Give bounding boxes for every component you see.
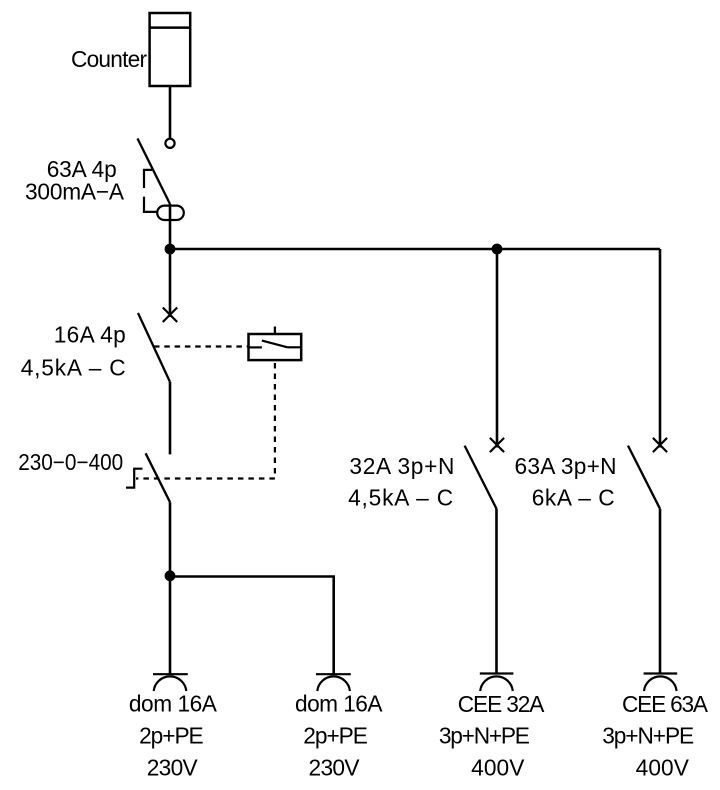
svg-text:CEE 63A: CEE 63A bbox=[622, 691, 709, 717]
svg-text:dom 16A: dom 16A bbox=[129, 691, 218, 717]
socket outlet X4 (CEE 63A) bbox=[644, 674, 678, 692]
svg-text:2p+PE: 2p+PE bbox=[303, 723, 368, 749]
wire RCD to bus node bbox=[169, 204, 172, 250]
svg-text:dom 16A: dom 16A bbox=[295, 691, 383, 717]
contact cross F1 bbox=[163, 308, 177, 323]
svg-text:4,5kA – C: 4,5kA – C bbox=[348, 484, 453, 510]
svg-text:Counter: Counter bbox=[71, 46, 147, 72]
svg-text:6kA – C: 6kA – C bbox=[532, 484, 615, 510]
svg-text:2p+PE: 2p+PE bbox=[139, 723, 204, 749]
wire bus to breaker F1 bbox=[169, 249, 172, 317]
wire bus to breaker F2 bbox=[496, 249, 499, 448]
wire meter to RCD contact bbox=[169, 86, 172, 139]
svg-text:300mA−A: 300mA−A bbox=[25, 179, 125, 205]
breaker blade F2 32A bbox=[465, 446, 497, 509]
svg-text:63A 3p+N: 63A 3p+N bbox=[515, 453, 617, 479]
svg-text:CEE 32A: CEE 32A bbox=[458, 691, 545, 717]
wire S1 to outlet node bbox=[169, 502, 172, 674]
svg-text:230−0−400: 230−0−400 bbox=[18, 449, 123, 475]
contactor control line (dashed) bbox=[136, 363, 275, 479]
mechanical linkage breaker to contactor (dashed) bbox=[154, 345, 249, 347]
open contact circle bbox=[165, 139, 174, 148]
RCD sensing toroid (stadium) bbox=[157, 206, 184, 220]
contact cross F2 bbox=[490, 438, 504, 452]
wire F2 to CEE 32A socket bbox=[495, 509, 498, 674]
socket outlet X3 (CEE 32A) bbox=[480, 674, 514, 692]
contact cross F3 bbox=[653, 438, 667, 452]
RCD test linkage bracket (dashed) bbox=[144, 170, 157, 212]
contactor K1 box bbox=[249, 334, 302, 360]
step symbol bbox=[126, 469, 143, 488]
bus corner wire to breaker F3 bbox=[659, 249, 662, 448]
wire F3 to CEE 63A socket bbox=[659, 509, 662, 674]
svg-text:16A 4p: 16A 4p bbox=[54, 322, 126, 348]
contactor contact blade bbox=[262, 341, 288, 348]
node C (outlet branch) bbox=[165, 570, 176, 581]
breaker blade F3 63A bbox=[628, 446, 660, 509]
kWh meter (Counter) box bbox=[150, 13, 191, 86]
node A (bus junction left) bbox=[165, 244, 176, 255]
socket outlet X2 (dom 16A) bbox=[316, 674, 351, 691]
svg-text:400V: 400V bbox=[636, 755, 690, 781]
socket outlet X1 (dom 16A) bbox=[153, 674, 188, 691]
svg-text:400V: 400V bbox=[471, 755, 525, 781]
contactor contact left lead bbox=[249, 346, 262, 348]
contactor contact right lead bbox=[288, 346, 302, 348]
RCD switch blade Q0 bbox=[138, 139, 171, 205]
wire F1 to changeover switch bbox=[169, 382, 172, 454]
svg-text:3p+N+PE: 3p+N+PE bbox=[439, 723, 530, 749]
node B (bus junction middle) bbox=[492, 244, 503, 255]
contactor top pin bbox=[274, 327, 276, 335]
breaker blade F1 16A bbox=[138, 313, 170, 382]
changeover switch blade S1 bbox=[146, 453, 170, 502]
svg-text:3p+N+PE: 3p+N+PE bbox=[602, 723, 694, 749]
svg-text:230V: 230V bbox=[147, 755, 199, 781]
svg-text:4,5kA – C: 4,5kA – C bbox=[21, 355, 126, 381]
svg-text:32A 3p+N: 32A 3p+N bbox=[349, 453, 454, 479]
svg-text:230V: 230V bbox=[309, 755, 361, 781]
bus wire horizontal bbox=[170, 248, 660, 251]
wire branch to outlet 2 bbox=[170, 577, 334, 675]
